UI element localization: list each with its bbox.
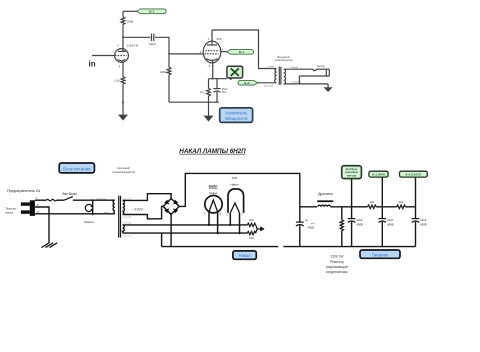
svg-text:разряжающий: разряжающий [326,265,348,269]
resistor 220k [167,67,171,75]
wire node1 to label1 [351,179,353,207]
transformer T2 core [278,67,280,85]
wire plus node to choke [300,206,317,208]
wire grid feed V2 [169,53,203,55]
svg-text:22uF: 22uF [387,218,393,222]
wire V2 cathode lead [212,61,214,79]
wire V2 screen stub [221,51,227,53]
wire G to chassis [35,207,49,243]
wire ground bus right [283,246,415,248]
op U1 cathode [118,59,126,61]
svg-text:Накал: Накал [239,253,252,258]
wire switch to primary [73,199,115,201]
wire V1 heater leg pin5 [217,212,219,233]
wire choke out [331,206,368,208]
label B+1 (6V6) [369,171,388,177]
svg-text:Лампа: Лампа [84,220,94,224]
label B+0 Вых трансформатора [233,166,427,260]
transformer T1 primary [113,200,115,214]
wire lamp drop [92,200,94,215]
wire 10k to node2 [376,206,397,208]
svg-text:мкФ: мкФ [311,222,315,225]
jack J1 tip contact [313,69,316,70]
capacitor 22uF #1 [351,207,353,219]
ground arrow U1 [118,115,128,121]
wire N to primary [35,213,115,215]
svg-text:Вкл Выкл: Вкл Выкл [63,192,78,196]
svg-text:8: 8 [209,64,211,68]
svg-text:47: 47 [305,218,308,222]
transformer T1 HV secondary [123,200,125,214]
svg-text:2: 2 [226,213,228,217]
plug P1 prongs [21,202,30,205]
heater V2 6V6 envelope [228,189,244,213]
svg-text:НАКАЛ ЛАМПЫ 6Н2П: НАКАЛ ЛАМПЫ 6Н2П [179,148,246,155]
svg-text:100k: 100k [127,20,134,24]
op U1 grid (dashed) [115,55,127,57]
transformer T1 core [118,196,120,238]
wire heater bus 2 [123,232,248,234]
capacitor 22uF #2 [381,207,383,219]
svg-text:Синий: Синий [267,65,274,68]
svg-text:22k: 22k [399,200,404,204]
node B+0 [351,206,353,208]
wire cathode node bar [209,78,228,80]
label B+2 (12AX7) [400,171,428,177]
capacitor 25uF bypass [216,79,218,89]
resistor 22k [397,205,406,209]
svg-text:1.5k: 1.5k [114,79,120,83]
svg-text:~230V: ~230V [132,206,144,211]
wire bridge minus [170,214,172,246]
svg-text:Красный: Красный [264,85,274,88]
wire V2 heater leg pin2 [229,213,231,225]
jack J1 sleeve [299,75,329,77]
svg-text:Дроссель: Дроссель [318,192,333,196]
svg-text:В+1 (6V6): В+1 (6V6) [372,172,384,176]
transformer T2 secondary [284,69,286,84]
svg-text:6н2п: 6н2п [209,184,219,188]
wire L to fuse [35,199,47,201]
wire plate node to cap [123,36,150,38]
triode U1 12AX7-B envelope [115,49,129,63]
svg-text:зелёный: зелёный [123,235,131,238]
node B+1 [381,206,383,208]
resistor 470 cathode [208,79,210,89]
op U1 plate [118,50,126,52]
op V2 control grid (dashed) [204,53,218,55]
resistor 220k bleeder [341,207,343,220]
svg-text:7: 7 [113,50,115,54]
svg-text:В+0: В+0 [244,81,250,85]
svg-text:450В: 450В [308,226,314,230]
wire grid leak bottom [168,75,170,102]
wire 22k to node3 [405,206,415,208]
svg-text:трансформатор: трансформатор [112,170,135,174]
svg-text:Усилитель: Усилитель [225,110,248,115]
wire grid leak top [168,54,170,67]
pentode V2 6V6 envelope [203,41,221,63]
svg-text:10k: 10k [370,200,375,204]
callout Накал [233,251,256,259]
capacitor C1 coupling [151,34,153,41]
callout X [227,66,243,78]
resistor 1.5k cathode [121,77,125,85]
switch S1 [64,197,73,201]
wire heater bus 1 [123,224,248,226]
svg-text:вилка: вилка [6,211,14,215]
wire V2 heater leg pin7 [239,213,241,233]
resistor 100 upper [247,223,255,226]
svg-text:3: 3 [208,37,210,41]
svg-text:Предохранитель 2А: Предохранитель 2А [7,189,41,193]
resistor 100k [121,17,125,25]
plug P1 body [30,200,35,216]
svg-text:конденсаторы: конденсаторы [326,270,348,274]
node cathode bus dot [122,101,124,103]
op V2 cathode [206,59,217,61]
svg-text:В+2: В+2 [149,9,155,13]
node V1 leg dots [208,224,210,226]
flag B+1 [227,49,254,54]
svg-text:матора: матора [347,174,357,177]
svg-text:5: 5 [220,212,222,216]
svg-text:трансформатор: трансформатор [274,59,293,62]
capacitor 47uF input [299,207,301,222]
wire U1 plate lead [122,37,124,51]
heater V1 6n2p envelope [205,196,222,213]
transformer T2 output primary [275,69,277,83]
svg-text:зелёный: зелёный [123,221,131,224]
svg-text:100: 100 [249,218,254,222]
wire ground bus left [162,246,279,248]
svg-text:22uF: 22uF [149,42,156,46]
flag B+2 [137,9,258,85]
op V2 plate [207,44,217,46]
svg-text:В+1: В+1 [239,50,245,54]
wire to ground [327,84,329,88]
svg-text:220k 1W: 220k 1W [330,255,344,259]
node cathode junction [212,78,214,80]
heater V2 filament [230,203,239,213]
svg-text:12AX7-B: 12AX7-B [127,43,138,47]
wire node2 to label2 [381,177,383,207]
wire secondary bottom [284,83,328,85]
transformer T1 heater secondary [123,225,125,233]
fuse F1 2A [47,199,57,201]
wire CT join [256,225,258,233]
svg-text:4: 4 [204,212,206,216]
wire bus stub [161,233,163,247]
callout Питание [360,250,400,258]
wire B+0 to OT primary bottom [258,82,276,84]
ground arrow CT [257,228,264,230]
svg-text:in: in [89,60,96,69]
svg-text:Резистор: Резистор [330,260,344,264]
svg-text:Накал: Накал [230,183,238,187]
ground arrow V2 [204,116,214,122]
svg-text:В+2 (12AX7): В+2 (12AX7) [406,172,422,176]
wire V2 plate lead [211,30,213,45]
wire resistor to plate node [122,25,124,38]
svg-text:25V: 25V [222,91,227,94]
wire preamp ground bus [169,101,219,103]
svg-text:Накал: Накал [209,191,217,195]
capacitor 22uF #3 [415,207,417,219]
svg-text:100: 100 [249,236,254,240]
wire B+2 to resistor [122,11,124,16]
svg-text:Питание: Питание [372,252,389,257]
svg-text:Выход: Выход [317,65,325,68]
callout Усилитель Мощности [220,108,253,123]
chassis ground [42,243,58,248]
svg-text:450В: 450В [356,223,362,227]
svg-text:красный: красный [123,216,131,219]
resistor 10k [368,205,377,209]
wire AC2 to bridge [123,206,164,218]
svg-text:220 вольт: 220 вольт [97,198,107,200]
bridge rectifier D1-D4 [163,199,179,215]
node grid junction [168,53,170,55]
wire AC1 to bridge [123,194,172,201]
wire U1 cathode lead [122,61,124,76]
node V2 leg dots [229,224,231,226]
svg-text:450В: 450В [420,223,426,227]
wire secondary top to jack [284,68,314,70]
svg-text:220k: 220k [160,70,167,74]
svg-text:22uF: 22uF [356,218,362,222]
svg-text:6: 6 [117,44,119,48]
ground arrow output [324,87,333,92]
svg-text:470: 470 [200,90,205,94]
svg-text:6V6: 6V6 [232,176,237,180]
wire fuse to switch [57,199,64,201]
wire node3 to label3 [415,177,417,207]
callout Блок питания [59,163,94,173]
wire V2 plate to output transformer [212,30,275,69]
wire B+2 stub [123,10,138,12]
wire bridge plus rail [179,173,300,206]
svg-text:8: 8 [119,64,121,68]
svg-text:Белый: Белый [292,66,299,69]
flag B+0 [238,81,258,85]
resistor 100 lower [247,231,255,234]
heater V1 filament [209,200,218,212]
wire cathode to ground [122,84,124,115]
svg-text:Блок питания: Блок питания [63,166,91,171]
wire input [92,55,115,57]
svg-text:450В: 450В [387,223,393,227]
inductor L1 choke core [317,200,333,202]
svg-text:Мощности: Мощности [225,116,248,121]
svg-text:6V6: 6V6 [217,37,222,41]
lamp NE1 [85,204,92,211]
node lamp tap [92,199,94,201]
svg-text:22uF: 22uF [420,218,426,222]
svg-text:4: 4 [222,47,224,51]
wire cap to corner [155,37,169,54]
svg-text:7: 7 [241,213,243,217]
inductor L1 winding [318,205,331,207]
title НАКАЛ ЛАМПЫ 6Н2П [59,148,246,173]
wire V1 heater leg pin4 [208,212,210,225]
node plate junction [122,36,124,38]
svg-text:вольт: вольт [104,212,110,214]
op V2 screen grid (dashed) [205,50,219,52]
wire to ground arrow [208,102,210,116]
